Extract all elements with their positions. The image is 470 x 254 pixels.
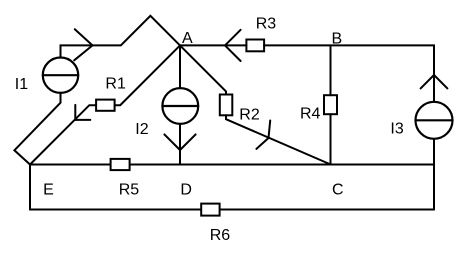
- svg-text:R6: R6: [210, 227, 231, 244]
- svg-text:I2: I2: [135, 121, 148, 138]
- resistor R6: [201, 204, 219, 216]
- svg-text:A: A: [182, 30, 193, 47]
- wire I3 bottom to bottom-right corner: [433, 139, 435, 210]
- resistor R1: [96, 100, 115, 111]
- current source I2: [162, 88, 198, 124]
- wire node B to R4: [330, 45, 332, 95]
- svg-text:R1: R1: [105, 76, 126, 93]
- svg-text:C: C: [332, 181, 344, 198]
- svg-text:E: E: [43, 182, 54, 199]
- wire R3 to node B: [264, 44, 330, 46]
- current arrow of I3 (pointing up): [421, 75, 448, 88]
- wire I1 top lead to apex to node A: [61, 16, 181, 58]
- svg-text:R5: R5: [119, 182, 140, 199]
- resistor R4: [324, 95, 337, 114]
- resistor R5: [111, 159, 130, 170]
- wire node A to R1 (diagonal): [115, 45, 180, 105]
- wire node A to I2 top: [179, 45, 181, 88]
- svg-text:I3: I3: [390, 121, 403, 138]
- wire node B to top-right corner and down to I3: [331, 45, 435, 101]
- current arrow of I2 (pointing down): [164, 134, 195, 150]
- svg-text:R4: R4: [300, 106, 321, 123]
- wire node A to R3: [180, 44, 246, 46]
- wire node A to R2 (diagonal): [180, 45, 226, 94]
- svg-text:D: D: [180, 181, 192, 198]
- current arrow on R1-E wire (pointing down-left): [75, 105, 90, 120]
- current source I3: [416, 102, 453, 139]
- current source I1: [43, 57, 78, 92]
- svg-text:I1: I1: [15, 76, 28, 93]
- current arrow on R2-C wire (pointing down-right): [256, 121, 270, 149]
- wire node E down to bottom rail: [29, 165, 31, 210]
- wire R4 to node C: [330, 114, 332, 164]
- current arrow on A-R3 wire (pointing left): [225, 30, 241, 61]
- resistor R3: [246, 40, 264, 52]
- wire R1 to node E (diagonal): [30, 105, 96, 164]
- wire R2 to node C: [226, 115, 331, 164]
- svg-text:B: B: [332, 31, 343, 48]
- wire I2 bottom to node D: [179, 124, 181, 165]
- wire bottom rail with R6: [30, 209, 434, 211]
- wire I1 bottom zigzag to node E: [14, 93, 60, 165]
- wire rail E-D-C to right side: [30, 164, 434, 166]
- resistor R2: [220, 95, 233, 116]
- svg-text:R2: R2: [239, 106, 260, 123]
- current arrow on I1 top wire (pointing right): [74, 29, 92, 60]
- svg-text:R3: R3: [256, 16, 277, 33]
